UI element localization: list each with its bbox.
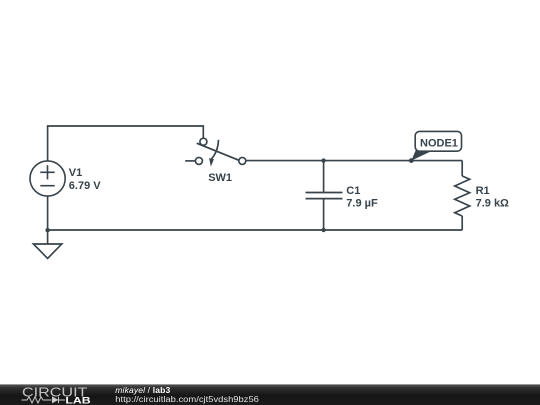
svg-text:7.9 µF: 7.9 µF (346, 198, 378, 210)
node NODE1 flag box (415, 131, 461, 151)
svg-text:6.79 V: 6.79 V (69, 180, 101, 192)
junction dot at capacitor bottom (321, 228, 325, 232)
footer bar (0, 384, 540, 405)
wire from V1 top to switch top terminal (48, 126, 204, 161)
junction dot at capacitor top (321, 158, 325, 162)
voltage source V1 (30, 161, 65, 196)
wire right vertical to resistor (461, 161, 463, 176)
wire from switch to right corner (246, 160, 462, 162)
resistor R1 (455, 176, 470, 216)
svg-text:LAB: LAB (65, 395, 91, 405)
label V1 value (69, 167, 101, 192)
junction dot at ground node (45, 228, 49, 232)
label R1 value (476, 185, 509, 210)
node NODE1 flag tail (411, 151, 432, 161)
bottom rail wire (48, 229, 463, 231)
svg-text:NODE1: NODE1 (420, 137, 458, 149)
label C1 value (346, 185, 378, 210)
node NODE1 dot (409, 158, 414, 163)
CircuitLab logo diode (52, 396, 59, 403)
ground (33, 230, 61, 258)
svg-text:R1: R1 (476, 185, 490, 197)
svg-text:V1: V1 (69, 167, 82, 179)
svg-text:SW1: SW1 (208, 172, 232, 184)
svg-text:7.9 kΩ: 7.9 kΩ (476, 198, 509, 210)
capacitor C1 (306, 161, 343, 230)
switch SW1 arrowhead (209, 158, 214, 167)
switch SW1 (185, 138, 246, 164)
wire from V1 bottom to ground node (47, 196, 49, 230)
CircuitLab logo squiggle (22, 397, 66, 404)
svg-text:http://circuitlab.com/cjt5vdsh: http://circuitlab.com/cjt5vdsh9bz56 (115, 394, 259, 404)
wire resistor bottom to bottom rail (461, 216, 463, 230)
svg-text:C1: C1 (346, 185, 360, 197)
